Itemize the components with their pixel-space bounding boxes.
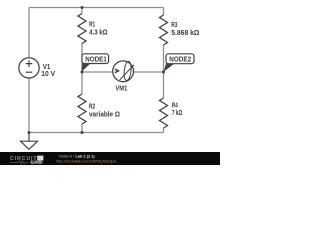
resistor R1 <box>78 14 86 44</box>
wire middle top stub <box>81 8 83 14</box>
svg-text:LAB: LAB <box>31 160 42 165</box>
wire VM1 to NODE2 <box>134 71 164 73</box>
voltmeter VM1 <box>113 61 134 82</box>
voltage source V1 <box>19 58 39 78</box>
wire NODE2 to R4 <box>163 72 165 98</box>
svg-text:VM1: VM1 <box>115 85 127 93</box>
footer logo LAB <box>30 160 42 163</box>
svg-text:5.868 kΩ: 5.868 kΩ <box>171 30 200 37</box>
resistor R2 <box>78 94 86 124</box>
wire R3 to NODE2 <box>163 45 165 72</box>
footer logo icon <box>37 156 43 161</box>
wire R4 to bottom rail <box>163 128 165 133</box>
resistor R4 <box>160 98 168 128</box>
svg-text:R2: R2 <box>89 104 95 111</box>
node NODE1 flag <box>82 54 109 72</box>
svg-text:R1: R1 <box>89 21 95 28</box>
node NODE2 flag <box>164 54 194 72</box>
wire bottom rail <box>29 132 164 134</box>
svg-text:NODE2: NODE2 <box>169 54 191 63</box>
wire right top stub <box>163 8 165 16</box>
svg-text:R3: R3 <box>171 22 177 29</box>
svg-text:7 kΩ: 7 kΩ <box>172 110 183 117</box>
wire top rail <box>29 7 164 9</box>
junction NODE1 <box>81 71 84 74</box>
junction top middle <box>81 6 84 9</box>
ground <box>21 133 38 150</box>
svg-text:V1: V1 <box>43 64 51 71</box>
wire R2 to bottom rail <box>81 124 83 133</box>
junction bottom left <box>28 131 31 134</box>
svg-text:R4: R4 <box>172 102 178 109</box>
footer logo zigzag <box>10 161 29 164</box>
svg-text:4.3 kΩ: 4.3 kΩ <box>89 30 108 37</box>
wire NODE1 to R2 <box>81 72 83 94</box>
svg-text:NODE1: NODE1 <box>85 54 107 63</box>
wire left lower <box>28 78 30 133</box>
resistor R3 <box>160 15 168 45</box>
wire left upper <box>28 8 30 58</box>
wire NODE1 to VM1 <box>82 71 113 73</box>
junction bottom middle <box>81 131 84 134</box>
svg-text:10 V: 10 V <box>41 71 55 78</box>
junction NODE2 <box>162 71 165 74</box>
wire R1 to NODE1 <box>81 44 83 73</box>
svg-text:http://circuitlab.com/c/6T8y7B: http://circuitlab.com/c/6T8y7Ba2jza <box>56 159 117 164</box>
footer bar <box>0 152 220 165</box>
svg-text:variable Ω: variable Ω <box>89 112 120 119</box>
